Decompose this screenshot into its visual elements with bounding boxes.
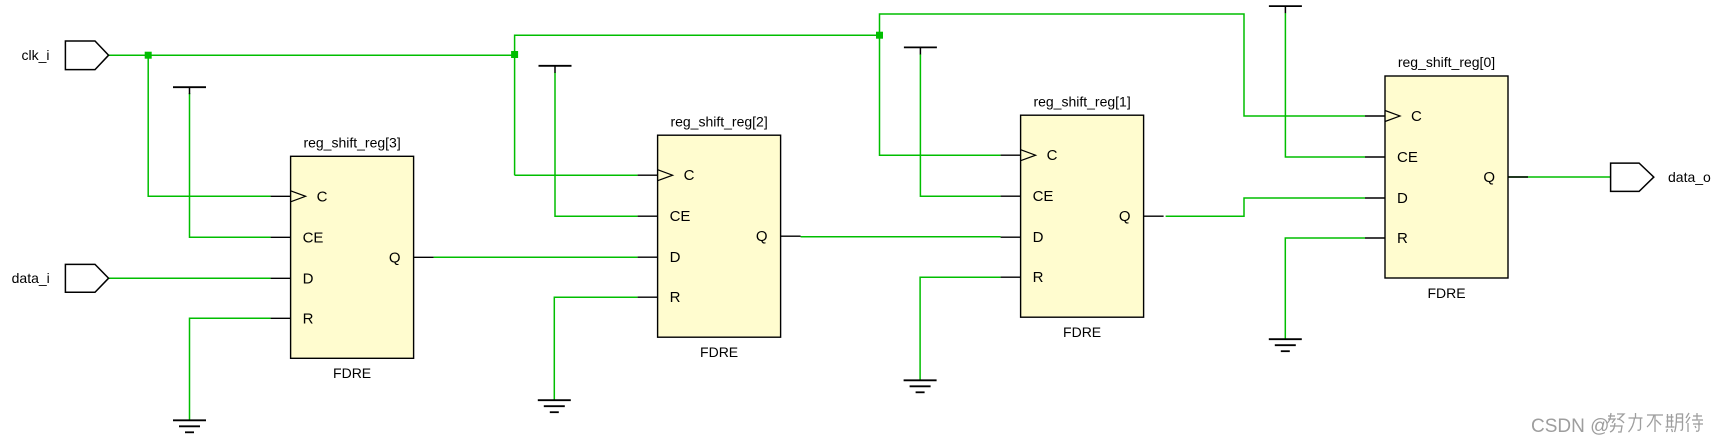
svg-text:D: D [1397, 190, 1408, 207]
svg-text:CE: CE [303, 229, 324, 246]
svg-text:reg_shift_reg[3]: reg_shift_reg[3] [303, 135, 400, 151]
svg-text:FDRE: FDRE [333, 365, 371, 381]
svg-text:CSDN @: CSDN @ [1531, 416, 1609, 437]
svg-text:C: C [684, 167, 695, 184]
svg-text:C: C [317, 188, 328, 205]
svg-text:Q: Q [1483, 169, 1495, 186]
svg-text:CE: CE [1033, 188, 1054, 205]
svg-text:reg_shift_reg[0]: reg_shift_reg[0] [1398, 54, 1495, 70]
svg-text:C: C [1047, 147, 1058, 164]
svg-text:FDRE: FDRE [1427, 285, 1465, 301]
svg-text:R: R [303, 310, 314, 327]
svg-text:CE: CE [1397, 149, 1418, 166]
svg-text:D: D [670, 249, 681, 266]
svg-text:CE: CE [670, 208, 691, 225]
svg-text:D: D [1033, 229, 1044, 246]
svg-text:FDRE: FDRE [700, 344, 738, 360]
svg-text:data_i: data_i [12, 270, 50, 286]
svg-text:Q: Q [756, 228, 768, 245]
svg-text:C: C [1411, 108, 1422, 125]
svg-text:Q: Q [389, 249, 401, 266]
svg-text:reg_shift_reg[1]: reg_shift_reg[1] [1033, 93, 1130, 109]
svg-text:D: D [303, 270, 314, 287]
svg-text:R: R [1397, 230, 1408, 247]
svg-text:Q: Q [1119, 208, 1131, 225]
svg-text:FDRE: FDRE [1063, 324, 1101, 340]
svg-text:clk_i: clk_i [21, 47, 49, 63]
svg-text:data_o: data_o [1668, 169, 1711, 185]
svg-text:R: R [1033, 269, 1044, 286]
svg-text:reg_shift_reg[2]: reg_shift_reg[2] [670, 113, 767, 129]
svg-text:R: R [670, 289, 681, 306]
